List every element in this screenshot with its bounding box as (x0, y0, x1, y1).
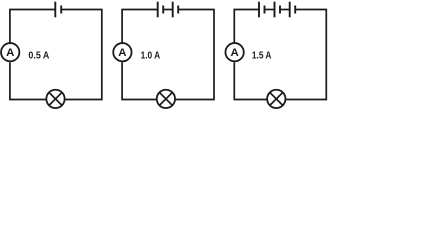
lamp L2 (157, 90, 175, 108)
battery B1 (single cell) : long plate (54, 2, 56, 18)
battery B3 cell 3 : long plate (289, 2, 291, 18)
wire: circuit 3 top-right segment and right side down (286, 10, 326, 100)
svg-text:A: A (6, 47, 14, 59)
wire: circuit 3 connector between cell 1 and cell 2 (265, 9, 275, 11)
battery B2 cell 2 : short plate (177, 6, 179, 14)
wire: circuit 2 top-left segment (to cells) (122, 10, 158, 43)
battery B3 cell 2 : long plate (274, 2, 276, 18)
battery B1 : short plate (60, 6, 62, 14)
lamp L1 (46, 90, 64, 108)
wire: circuit 1 top-right segment (from cell) and right side down (61, 10, 102, 100)
wire: circuit 1 bottom-left segment and left side up to ammeter (10, 62, 46, 99)
battery B3 cell 3 : short plate (294, 6, 296, 14)
ammeter A3 (225, 43, 243, 61)
wire: circuit 2 top-right segment and right side down (176, 10, 214, 100)
lamp L3 (267, 90, 285, 108)
battery B2 cell 1 : long plate (157, 2, 159, 18)
ammeter A2 (113, 43, 131, 61)
battery B3 cell 1 : short plate (264, 6, 266, 14)
ammeter A1 (1, 43, 19, 61)
wire: circuit 3 connector between cell 2 and cell 3 (280, 9, 290, 11)
wire: circuit 3 bottom-left segment and left side up to ammeter (234, 62, 266, 99)
battery B3 cell 1 : long plate (258, 2, 260, 18)
svg-text:1.5 A: 1.5 A (252, 50, 272, 61)
wire: circuit 1 top-left segment (to cell) (10, 10, 55, 43)
wire: circuit 3 top-left segment (to cells) (234, 10, 259, 43)
wire: circuit 2 connector between cell 1 and cell 2 (163, 9, 173, 11)
svg-text:1.0 A: 1.0 A (141, 50, 161, 61)
battery B3 cell 2 : short plate (279, 6, 281, 14)
battery B2 cell 2 : long plate (172, 2, 174, 18)
wire: circuit 2 bottom-left segment and left side up to ammeter (122, 62, 156, 99)
svg-text:A: A (230, 47, 238, 59)
battery B2 cell 1 : short plate (162, 6, 164, 14)
svg-text:A: A (118, 47, 126, 59)
svg-text:0.5 A: 0.5 A (28, 49, 49, 61)
